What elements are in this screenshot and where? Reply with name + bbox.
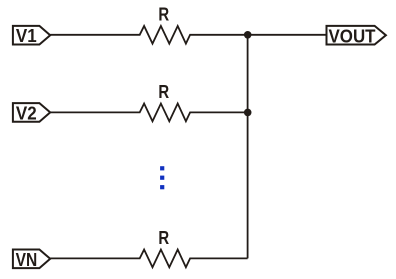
- svg-text:R: R: [158, 81, 169, 102]
- svg-text:R: R: [158, 4, 169, 25]
- svg-text:R: R: [158, 227, 169, 248]
- svg-text:VOUT: VOUT: [329, 25, 377, 46]
- svg-text:V2: V2: [16, 103, 37, 124]
- svg-text:VN: VN: [16, 249, 38, 270]
- svg-text:V1: V1: [16, 25, 37, 46]
